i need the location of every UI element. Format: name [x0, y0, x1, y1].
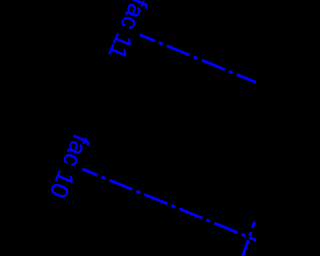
axis line fac 10 [82, 169, 260, 242]
axis line unlabeled (bottom right) [242, 222, 255, 256]
label fac 10 [43, 130, 94, 202]
label fac 11 [102, 0, 153, 63]
axis line fac 11 [140, 35, 260, 84]
